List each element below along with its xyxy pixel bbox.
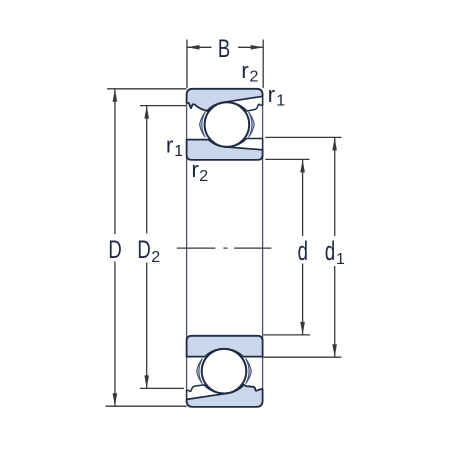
centre axis line xyxy=(177,247,272,249)
dimension lines group xyxy=(106,40,342,407)
label d1 xyxy=(325,236,345,268)
outer ring bore wedge bottom xyxy=(187,385,228,400)
d1 dimension line xyxy=(334,138,336,236)
B arrow right xyxy=(251,45,264,50)
outer ring section bottom xyxy=(187,385,263,407)
svg-text:1: 1 xyxy=(174,143,183,160)
svg-text:r: r xyxy=(166,133,174,158)
svg-text:B: B xyxy=(218,34,230,62)
B extension line left xyxy=(186,40,188,89)
D dimension line xyxy=(114,89,116,234)
B arrow left xyxy=(187,45,200,50)
label r2 bottom xyxy=(191,157,208,185)
svg-text:d: d xyxy=(298,236,308,266)
svg-text:r: r xyxy=(191,157,199,182)
svg-text:2: 2 xyxy=(250,69,259,86)
d top extension line xyxy=(265,158,309,160)
svg-text:2: 2 xyxy=(199,168,208,185)
inner ring section bottom xyxy=(187,336,263,357)
D bottom extension line xyxy=(106,405,187,407)
outer ring bore wedge xyxy=(223,96,263,111)
label r1 left xyxy=(166,133,183,161)
D top extension line xyxy=(107,88,187,90)
D2 dimension line xyxy=(146,106,148,234)
inner ring shoulder wedge xyxy=(225,139,263,150)
left side face line xyxy=(186,100,188,396)
d1 arrow down xyxy=(332,344,337,357)
label r2 top xyxy=(241,58,258,86)
svg-text:1: 1 xyxy=(276,93,285,110)
right raceway sliver xyxy=(248,112,254,137)
left raceway sliver xyxy=(200,112,206,137)
svg-text:r: r xyxy=(268,82,276,107)
d arrow down xyxy=(300,322,305,335)
D2 arrow up xyxy=(144,106,149,119)
d bottom extension line xyxy=(263,334,310,336)
svg-text:d: d xyxy=(325,236,335,266)
bottom cross-section xyxy=(187,336,263,407)
dimension arrows xyxy=(113,45,337,406)
D arrow up xyxy=(113,89,118,102)
bearing side face lines xyxy=(187,95,263,400)
D2 bottom extension line xyxy=(140,387,184,389)
svg-text:2: 2 xyxy=(151,249,160,266)
label D2 xyxy=(137,235,160,266)
ball xyxy=(205,102,250,147)
d1 bottom extension line xyxy=(263,356,341,358)
right raceway sliver bottom xyxy=(246,359,252,384)
d arrow up xyxy=(300,159,305,172)
D2 top extension line xyxy=(140,105,187,107)
D2 arrow down xyxy=(144,375,149,388)
svg-text:D: D xyxy=(137,235,150,263)
ball bottom xyxy=(202,349,247,394)
label r1 right xyxy=(268,82,286,110)
d dimension line xyxy=(302,160,304,236)
left raceway sliver bottom xyxy=(197,359,203,384)
svg-text:D: D xyxy=(108,235,121,263)
right side face line xyxy=(262,95,264,400)
svg-text:1: 1 xyxy=(336,251,345,268)
d1 arrow up xyxy=(332,137,337,150)
svg-text:r: r xyxy=(241,58,249,83)
d1 top extension line xyxy=(265,136,341,138)
B dimension line xyxy=(187,46,212,48)
outer ring section xyxy=(187,89,263,111)
inner ring section xyxy=(187,140,263,160)
top cross-section xyxy=(187,89,263,160)
B extension line right xyxy=(262,40,264,88)
D arrow down xyxy=(113,393,118,406)
